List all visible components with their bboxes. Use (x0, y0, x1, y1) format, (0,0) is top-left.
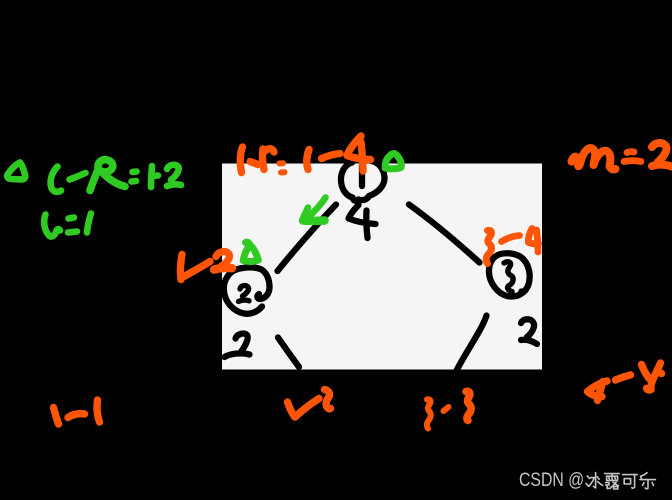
orange 1-4 (307, 150, 309, 170)
orange 1-1 (54, 408, 59, 425)
watermark latin CSDN @ (519, 471, 584, 491)
orange m=2 (572, 143, 672, 169)
node 2 digit 2 (239, 286, 250, 302)
green triangle near root (385, 154, 401, 169)
green l=1 (44, 215, 60, 237)
green dash (70, 173, 86, 180)
watermark hanzi le (641, 473, 647, 480)
right digit 2 (521, 319, 537, 344)
node 3 circle (489, 253, 530, 296)
green l (51, 167, 61, 192)
green 1 (151, 166, 158, 187)
green R (90, 160, 125, 191)
node 1 digit 1 (359, 166, 365, 186)
orange 3-3 (427, 399, 431, 428)
watermark CSDN (586, 473, 655, 489)
green arrow (306, 198, 326, 220)
watermark hanzi ke (623, 474, 638, 476)
orange 3-4 (node3 label) (486, 230, 491, 263)
orange 2-2 (288, 399, 320, 418)
green triangle top-left (7, 163, 25, 180)
node 2 circle (232, 267, 270, 299)
orange 1-2 (node2 label) (180, 255, 182, 280)
watermark hanzi lu (605, 473, 619, 475)
white canvas (222, 164, 542, 370)
green 2 (167, 165, 181, 186)
node 1 circle (root) (341, 161, 385, 201)
green colon (132, 172, 137, 182)
watermark hanzi bing (586, 476, 590, 486)
green triangle above node2 (243, 242, 258, 261)
edge root to node 3 (409, 205, 480, 263)
orange 4-4 (588, 381, 608, 401)
orange 1-r: (240, 147, 242, 173)
edge root to node 2 (278, 205, 337, 272)
node 3 digit 3 (504, 262, 513, 292)
edge node2 down (278, 338, 299, 368)
label 4 under root (349, 205, 376, 238)
edge node3 down (456, 316, 487, 373)
left digit 2 (225, 334, 250, 357)
